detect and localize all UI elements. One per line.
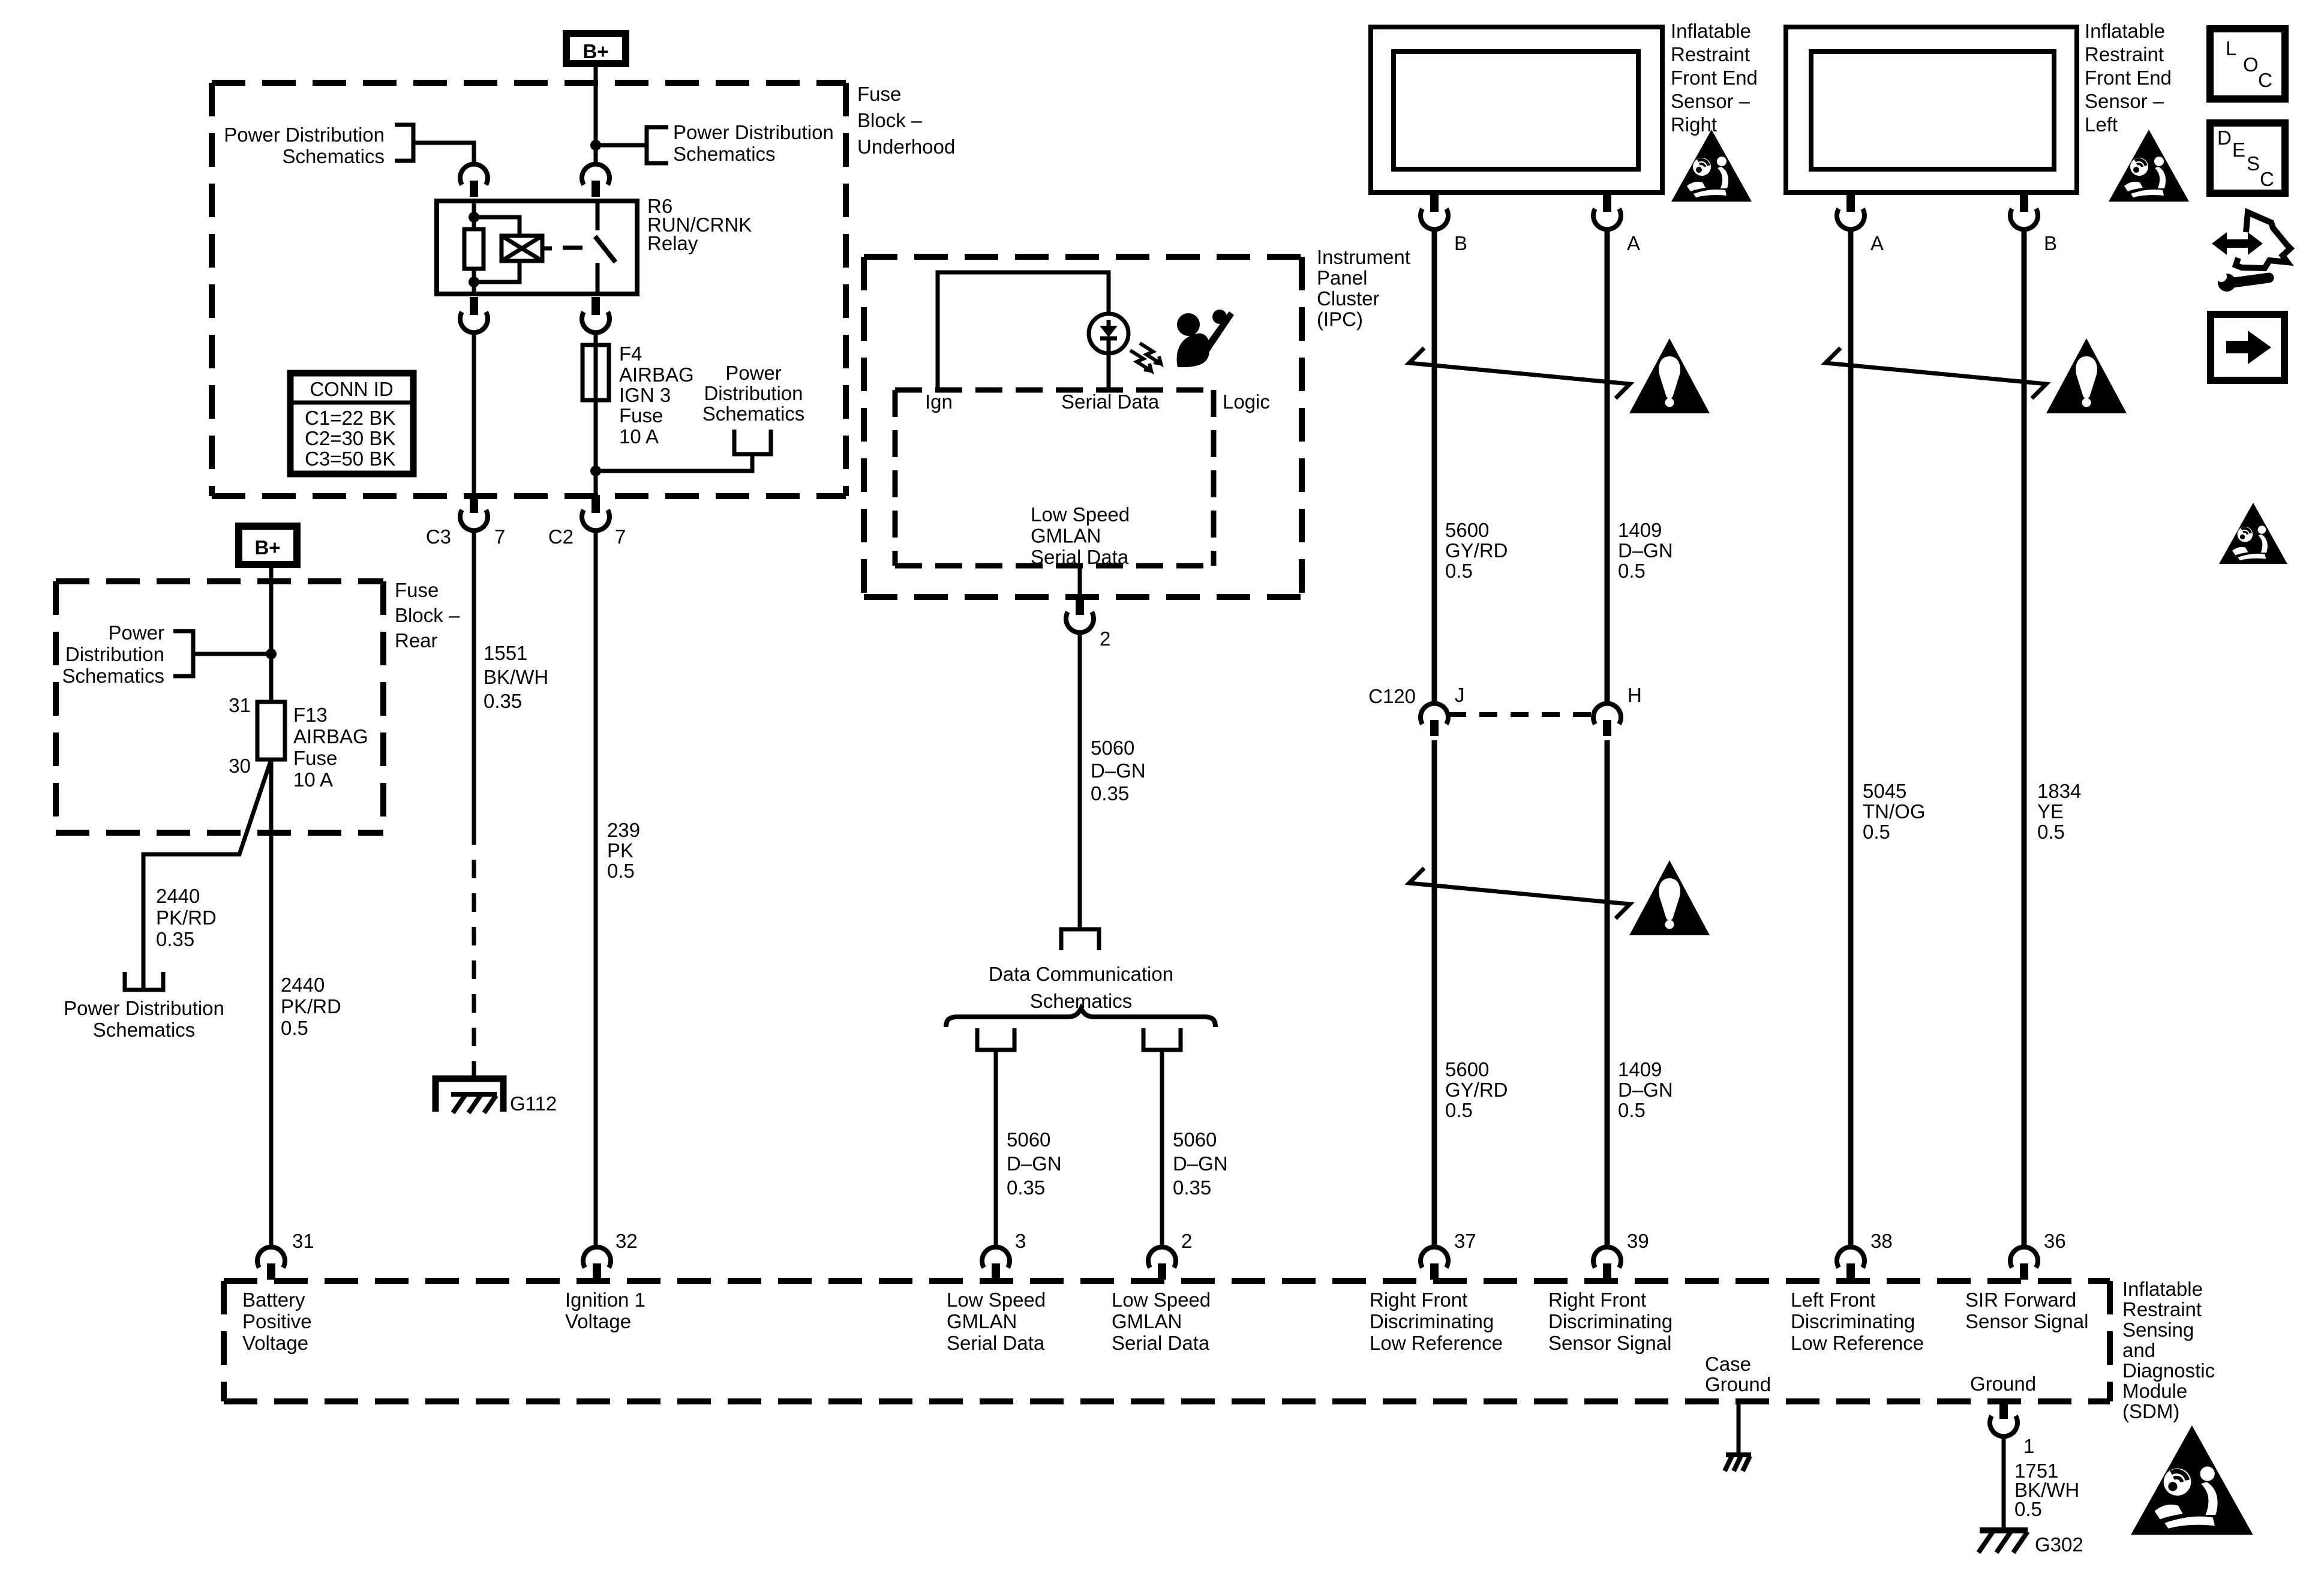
warning triangle left xyxy=(2046,338,2127,413)
svg-text:Relay: Relay xyxy=(647,232,698,254)
svg-text:IGN 3: IGN 3 xyxy=(619,384,671,406)
connector SDM pin 36 xyxy=(2010,1247,2038,1280)
svg-text:C120: C120 xyxy=(1368,685,1416,707)
svg-text:31: 31 xyxy=(229,694,251,716)
svg-text:Schematics: Schematics xyxy=(62,665,164,687)
svg-text:H: H xyxy=(1628,684,1642,706)
node relay top junction xyxy=(469,212,479,223)
svg-text:Power: Power xyxy=(108,622,164,644)
node rear junction xyxy=(266,649,277,659)
svg-text:39: 39 xyxy=(1627,1230,1649,1252)
svg-text:7: 7 xyxy=(494,526,505,548)
svg-text:Restraint: Restraint xyxy=(2085,43,2164,65)
icon SIR triangle legend xyxy=(2219,503,2287,564)
svg-text:Case: Case xyxy=(1705,1353,1751,1375)
wire 239 PK xyxy=(594,529,598,1249)
wire 1751 BK/WH xyxy=(2002,1434,2006,1530)
wire 5045 TN/OG xyxy=(1848,227,1854,1248)
bracket power distribution (fuse branch) xyxy=(734,430,771,454)
svg-text:0.5: 0.5 xyxy=(1445,1099,1473,1121)
svg-text:Serial Data: Serial Data xyxy=(1112,1332,1210,1354)
svg-text:Schematics: Schematics xyxy=(702,403,805,425)
logic box xyxy=(895,388,1214,393)
fuse F4 xyxy=(582,345,609,400)
icon DESC box xyxy=(2210,123,2285,193)
wire relay to C3 xyxy=(472,331,476,496)
wire 1409 D-GN lower xyxy=(1605,740,1610,1248)
wire 1409 D-GN upper xyxy=(1605,227,1610,704)
svg-text:S: S xyxy=(2247,152,2260,175)
svg-text:GMLAN: GMLAN xyxy=(1031,525,1101,547)
svg-text:Inflatable: Inflatable xyxy=(1671,20,1751,42)
node relay bottom junction xyxy=(469,277,479,287)
svg-text:239: 239 xyxy=(607,819,640,841)
svg-text:D–GN: D–GN xyxy=(1007,1152,1062,1175)
svg-text:10 A: 10 A xyxy=(619,425,659,448)
svg-text:5060: 5060 xyxy=(1007,1128,1050,1151)
svg-text:36: 36 xyxy=(2044,1230,2066,1252)
svg-text:Left Front: Left Front xyxy=(1791,1289,1875,1311)
svg-text:Discriminating: Discriminating xyxy=(1548,1310,1673,1332)
svg-text:B: B xyxy=(1454,232,1467,254)
connector sensor left pin A xyxy=(1837,194,1864,229)
fuse block underhood box xyxy=(212,80,846,86)
svg-text:Instrument: Instrument xyxy=(1317,246,1410,268)
bracket power distribution branch xyxy=(125,972,163,990)
svg-text:B: B xyxy=(2044,232,2057,254)
svg-text:Serial Data: Serial Data xyxy=(947,1332,1045,1354)
svg-text:Ignition 1: Ignition 1 xyxy=(565,1289,645,1311)
wire 1551 dashed part xyxy=(472,826,476,1080)
connector SDM ground pin 1 xyxy=(1990,1401,2017,1436)
svg-text:G302: G302 xyxy=(2035,1533,2083,1556)
connector relay pin right bottom xyxy=(582,297,609,332)
connector sensor right pin B xyxy=(1421,194,1448,229)
svg-text:Front End: Front End xyxy=(1671,67,1758,89)
twisted pair marker right upper xyxy=(1409,348,1630,398)
wire case ground xyxy=(1737,1401,1741,1455)
svg-text:Battery: Battery xyxy=(242,1289,305,1311)
svg-text:38: 38 xyxy=(1870,1230,1893,1252)
svg-text:32: 32 xyxy=(615,1230,638,1252)
svg-text:5600: 5600 xyxy=(1445,1058,1489,1080)
instrument panel cluster box xyxy=(864,254,1302,260)
wire 1834 YE xyxy=(2022,227,2027,1248)
icon SIR triangle SDM xyxy=(2131,1425,2253,1535)
icon SIR triangle sensor left xyxy=(2109,130,2189,202)
dashed armature link xyxy=(563,246,582,250)
wire relay coil branch xyxy=(472,201,476,229)
svg-text:37: 37 xyxy=(1454,1230,1476,1252)
wire 2440 branch diagonal xyxy=(143,760,271,990)
relay coil xyxy=(502,236,542,261)
svg-text:Low Speed: Low Speed xyxy=(1112,1289,1211,1311)
svg-text:0.5: 0.5 xyxy=(2037,821,2065,843)
svg-text:Sensing: Sensing xyxy=(2122,1319,2194,1341)
svg-text:Low Speed: Low Speed xyxy=(1031,503,1130,526)
svg-text:1409: 1409 xyxy=(1618,1058,1662,1080)
svg-text:SIR Forward: SIR Forward xyxy=(1965,1289,2076,1311)
wire 5600 GY/RD lower xyxy=(1432,740,1437,1248)
connector sensor left pin B xyxy=(2010,194,2038,229)
wire 1551 BK/WH solid part xyxy=(472,529,476,826)
svg-text:Serial Data: Serial Data xyxy=(1031,546,1129,568)
svg-text:Inflatable: Inflatable xyxy=(2122,1278,2203,1300)
svg-text:B+: B+ xyxy=(582,40,608,62)
svg-text:GMLAN: GMLAN xyxy=(947,1310,1017,1332)
svg-text:C: C xyxy=(2260,168,2274,190)
warning triangle right lower xyxy=(1629,860,1710,935)
svg-text:D–GN: D–GN xyxy=(1618,1079,1673,1101)
svg-text:Underhood: Underhood xyxy=(857,136,955,158)
svg-text:Low Speed: Low Speed xyxy=(947,1289,1046,1311)
node fuse branch junction xyxy=(590,466,601,476)
wire relay to fuse F4 xyxy=(594,331,598,496)
wire coil armature stub xyxy=(542,247,552,251)
svg-text:AIRBAG: AIRBAG xyxy=(293,725,368,748)
svg-text:PK: PK xyxy=(607,839,633,861)
svg-text:G112: G112 xyxy=(510,1092,557,1115)
svg-text:Right: Right xyxy=(1671,113,1717,136)
off-page bracket IPC serial data xyxy=(1061,929,1099,950)
wire 5060 to SDM pin 2 xyxy=(1160,1050,1164,1249)
svg-text:Panel: Panel xyxy=(1317,267,1367,289)
relay R6 box xyxy=(437,201,637,294)
svg-text:0.35: 0.35 xyxy=(1007,1176,1045,1199)
svg-text:Discriminating: Discriminating xyxy=(1370,1310,1494,1332)
svg-text:Schematics: Schematics xyxy=(93,1019,196,1041)
connector relay pin left bottom xyxy=(460,297,488,332)
svg-text:C3=50 BK: C3=50 BK xyxy=(305,448,395,470)
power symbol B+ (underhood feed) xyxy=(566,34,626,64)
svg-text:AIRBAG: AIRBAG xyxy=(619,364,694,386)
svg-text:C: C xyxy=(2258,69,2272,91)
svg-text:1409: 1409 xyxy=(1618,519,1662,541)
connector SDM pin 39 xyxy=(1593,1247,1621,1280)
connector SDM pin 3 xyxy=(982,1247,1010,1280)
wire resistor bottom xyxy=(472,269,476,294)
icon arrow box xyxy=(2211,314,2284,380)
svg-text:Right Front: Right Front xyxy=(1548,1289,1646,1311)
svg-text:1834: 1834 xyxy=(2037,780,2081,802)
svg-text:Module: Module xyxy=(2122,1380,2187,1402)
svg-text:0.5: 0.5 xyxy=(607,860,635,882)
svg-text:O: O xyxy=(2243,53,2259,76)
svg-text:Diagnostic: Diagnostic xyxy=(2122,1359,2215,1382)
svg-text:Fuse: Fuse xyxy=(395,579,439,601)
svg-text:0.35: 0.35 xyxy=(484,690,522,712)
connector sensor right pin A xyxy=(1593,194,1621,229)
ground G302 xyxy=(1980,1527,2028,1533)
svg-text:5060: 5060 xyxy=(1173,1128,1217,1151)
icon LOC box xyxy=(2210,29,2285,99)
svg-text:31: 31 xyxy=(292,1230,314,1252)
svg-text:Sensor –: Sensor – xyxy=(2085,90,2164,112)
connector SDM pin 2 xyxy=(1148,1247,1176,1280)
svg-text:10 A: 10 A xyxy=(293,769,333,791)
wire 5600 GY/RD upper xyxy=(1432,227,1437,704)
svg-text:Schematics: Schematics xyxy=(282,145,385,167)
wire 5060 D-GN from IPC xyxy=(1078,631,1082,929)
svg-text:Schematics: Schematics xyxy=(673,143,776,165)
svg-text:Logic: Logic xyxy=(1223,391,1270,413)
svg-text:Power Distribution: Power Distribution xyxy=(224,124,385,146)
svg-text:A: A xyxy=(1627,232,1640,254)
svg-text:0.35: 0.35 xyxy=(1091,782,1129,804)
svg-text:0.5: 0.5 xyxy=(1618,1099,1646,1121)
svg-text:D–GN: D–GN xyxy=(1618,539,1673,562)
svg-text:YE: YE xyxy=(2037,800,2064,822)
wire coil loop bottom xyxy=(474,261,520,282)
svg-text:5045: 5045 xyxy=(1863,780,1906,802)
svg-text:CONN ID: CONN ID xyxy=(310,378,393,400)
svg-text:Power Distribution: Power Distribution xyxy=(64,997,224,1019)
CONN ID table xyxy=(290,373,413,474)
svg-text:Fuse: Fuse xyxy=(619,404,663,427)
svg-text:GMLAN: GMLAN xyxy=(1112,1310,1182,1332)
fuse F13 xyxy=(257,702,285,760)
svg-text:Sensor –: Sensor – xyxy=(1671,90,1750,112)
svg-text:1: 1 xyxy=(2023,1435,2034,1457)
svg-text:F13: F13 xyxy=(293,704,328,726)
svg-text:C3: C3 xyxy=(426,526,451,548)
svg-text:2: 2 xyxy=(1181,1230,1192,1252)
svg-text:Distribution: Distribution xyxy=(704,382,803,404)
connector C120 pin H xyxy=(1593,704,1621,736)
svg-text:Fuse: Fuse xyxy=(857,83,901,105)
svg-text:Power: Power xyxy=(725,362,782,384)
svg-text:J: J xyxy=(1455,684,1465,706)
svg-text:Voltage: Voltage xyxy=(242,1332,308,1354)
svg-text:(SDM): (SDM) xyxy=(2122,1400,2179,1422)
svg-text:C1=22 BK: C1=22 BK xyxy=(305,407,395,429)
svg-text:E: E xyxy=(2232,139,2245,161)
svg-text:2440: 2440 xyxy=(281,974,325,996)
svg-text:2: 2 xyxy=(1100,628,1110,650)
SDM box xyxy=(224,1278,2110,1284)
switch relay contact xyxy=(596,201,600,230)
bracket power distribution rear xyxy=(173,631,193,676)
svg-text:TN/OG: TN/OG xyxy=(1863,800,1926,822)
svg-text:0.5: 0.5 xyxy=(1445,560,1473,582)
wire F13 to SDM pin 31 xyxy=(269,760,274,1249)
bracket power distribution left xyxy=(395,125,413,161)
wire to power distribution ref right xyxy=(596,143,647,148)
svg-text:0.35: 0.35 xyxy=(156,928,194,950)
connector C2 pin 7 xyxy=(582,495,609,530)
power symbol B+ (rear feed) xyxy=(239,526,297,565)
svg-text:0.5: 0.5 xyxy=(1618,560,1646,582)
wire fuse branch xyxy=(596,454,752,471)
indicator LED airbag lamp xyxy=(1089,314,1128,353)
ground G112 xyxy=(436,1079,503,1112)
svg-text:Data Communication: Data Communication xyxy=(989,963,1173,985)
svg-text:7: 7 xyxy=(615,526,626,548)
svg-text:D–GN: D–GN xyxy=(1173,1152,1228,1175)
wire ign to serial data loop xyxy=(938,272,1109,390)
svg-text:Block –: Block – xyxy=(857,109,923,131)
wire to power distribution rear xyxy=(193,652,271,656)
wire serial data to pin 2 xyxy=(1078,566,1082,600)
wire 5060 to SDM pin 3 xyxy=(994,1050,998,1249)
svg-text:0.5: 0.5 xyxy=(2014,1498,2042,1520)
svg-text:D: D xyxy=(2217,127,2232,149)
wire B+ to relay xyxy=(594,64,598,166)
wire LED to logic xyxy=(1107,353,1111,390)
svg-text:Positive: Positive xyxy=(242,1310,312,1332)
svg-text:0.5: 0.5 xyxy=(1863,821,1890,843)
warning triangle right upper xyxy=(1629,338,1710,413)
svg-text:F4: F4 xyxy=(619,343,642,365)
svg-text:Sensor Signal: Sensor Signal xyxy=(1965,1310,2088,1332)
svg-text:GY/RD: GY/RD xyxy=(1445,1079,1508,1101)
svg-text:Right Front: Right Front xyxy=(1370,1289,1467,1311)
svg-text:0.35: 0.35 xyxy=(1173,1176,1211,1199)
svg-text:Discriminating: Discriminating xyxy=(1791,1310,1915,1332)
lightning arrows xyxy=(1130,350,1151,371)
svg-text:(IPC): (IPC) xyxy=(1317,308,1363,331)
resistor relay xyxy=(464,229,484,269)
svg-text:1551: 1551 xyxy=(484,642,527,664)
ground case symbol xyxy=(1726,1452,1751,1457)
connector SDM pin 38 xyxy=(1837,1247,1864,1280)
svg-text:D–GN: D–GN xyxy=(1091,760,1146,782)
svg-text:Fuse: Fuse xyxy=(293,747,337,769)
svg-text:PK/RD: PK/RD xyxy=(156,906,217,929)
svg-text:Ground: Ground xyxy=(1705,1373,1771,1395)
svg-text:Left: Left xyxy=(2085,113,2118,136)
svg-text:C2=30 BK: C2=30 BK xyxy=(305,427,395,449)
svg-text:Ground: Ground xyxy=(1970,1373,2036,1395)
svg-text:Low Reference: Low Reference xyxy=(1370,1332,1503,1354)
svg-text:5060: 5060 xyxy=(1091,737,1134,759)
svg-text:3: 3 xyxy=(1015,1230,1026,1252)
svg-text:Rear: Rear xyxy=(395,629,438,652)
svg-text:0.5: 0.5 xyxy=(281,1017,308,1039)
connector SDM pin 31 xyxy=(257,1247,285,1280)
off-page bracket gmlan 2 xyxy=(1143,1028,1181,1050)
wire power distribution to relay pin xyxy=(413,143,474,166)
connector SDM pin 32 xyxy=(583,1247,611,1280)
svg-text:5600: 5600 xyxy=(1445,519,1489,541)
svg-text:Serial Data: Serial Data xyxy=(1061,391,1160,413)
bracket power distribution right xyxy=(647,127,668,163)
fuse block rear box xyxy=(56,578,383,584)
svg-text:Front End: Front End xyxy=(2085,67,2172,89)
svg-text:Inflatable: Inflatable xyxy=(2085,20,2165,42)
svg-text:Ign: Ign xyxy=(925,391,953,413)
svg-text:B+: B+ xyxy=(254,536,280,559)
svg-text:Cluster: Cluster xyxy=(1317,287,1380,310)
connector relay pin left top xyxy=(460,164,488,197)
svg-text:A: A xyxy=(1870,232,1884,254)
icon SIR triangle sensor right xyxy=(1671,130,1752,202)
connector C120 pin J xyxy=(1421,704,1448,736)
svg-text:and: and xyxy=(2122,1339,2155,1361)
svg-text:Block –: Block – xyxy=(395,604,460,626)
svg-text:BK/WH: BK/WH xyxy=(484,666,548,688)
brace data communication xyxy=(946,1008,1215,1027)
svg-text:GY/RD: GY/RD xyxy=(1445,539,1508,562)
svg-text:30: 30 xyxy=(229,755,251,777)
svg-text:Low Reference: Low Reference xyxy=(1791,1332,1924,1354)
svg-text:2440: 2440 xyxy=(156,885,200,907)
svg-text:Restraint: Restraint xyxy=(2122,1298,2202,1320)
connector SDM pin 37 xyxy=(1421,1247,1448,1280)
node junction B+ branch xyxy=(590,140,601,151)
off-page bracket gmlan 1 xyxy=(977,1028,1014,1050)
wire B+ rear down xyxy=(269,565,274,702)
svg-text:Restraint: Restraint xyxy=(1671,43,1750,65)
wire coil loop top xyxy=(474,217,520,236)
svg-text:Sensor Signal: Sensor Signal xyxy=(1548,1332,1671,1354)
inflatable restraint front end sensor right box xyxy=(1371,27,1662,193)
icon wrench double arrow xyxy=(2223,239,2253,248)
svg-text:Voltage: Voltage xyxy=(565,1310,631,1332)
svg-text:C2: C2 xyxy=(548,526,574,548)
connector C3 pin 7 xyxy=(460,495,488,530)
svg-text:Power Distribution: Power Distribution xyxy=(673,121,834,143)
svg-text:PK/RD: PK/RD xyxy=(281,995,341,1017)
dashed link C120 xyxy=(1448,712,1593,717)
svg-text:Distribution: Distribution xyxy=(65,643,164,665)
connector relay pin right top xyxy=(582,164,609,197)
twisted pair marker left xyxy=(1825,348,2046,398)
twisted pair marker right lower xyxy=(1409,868,1630,918)
inflatable restraint front end sensor left box xyxy=(1786,27,2077,193)
icon airbag person xyxy=(1177,313,1200,336)
svg-text:L: L xyxy=(2226,37,2236,59)
connector IPC pin 2 xyxy=(1066,597,1094,632)
